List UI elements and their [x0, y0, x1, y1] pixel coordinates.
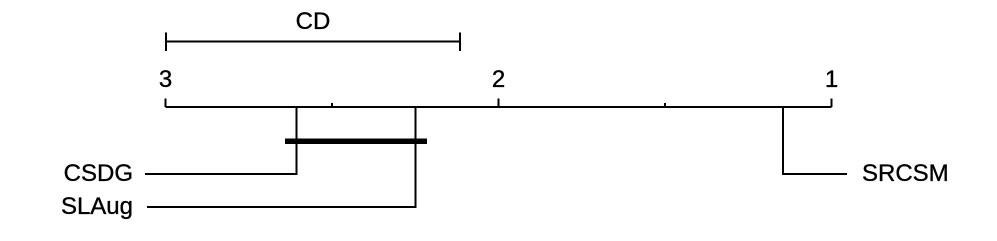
SLAug connector [147, 107, 416, 207]
major tick 1 [831, 99, 833, 108]
svg-text:3: 3 [159, 66, 172, 93]
minor tick 1.5 [664, 103, 666, 107]
SRCSM connector [783, 107, 847, 174]
CSDG connector [145, 107, 297, 174]
svg-text:1: 1 [825, 66, 838, 93]
major tick 2 [498, 99, 500, 108]
major tick 3 [165, 99, 167, 108]
svg-text:CD: CD [296, 8, 331, 35]
svg-text:SLAug: SLAug [61, 193, 133, 220]
axis line [166, 106, 832, 108]
clique bar (CSDG-SLAug) [285, 139, 427, 145]
svg-text:SRCSM: SRCSM [862, 160, 949, 187]
minor tick 2.5 [331, 103, 333, 107]
svg-text:2: 2 [492, 66, 505, 93]
CD interval bar [166, 33, 460, 52]
svg-text:CSDG: CSDG [64, 160, 133, 187]
